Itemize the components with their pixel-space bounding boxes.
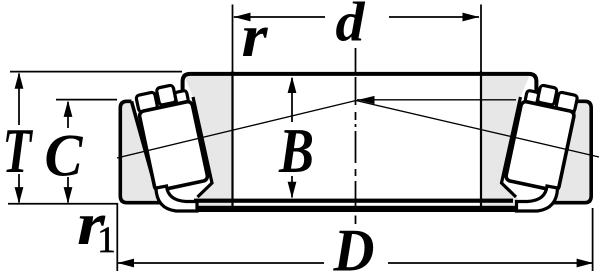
svg-text:C: C	[45, 123, 84, 189]
svg-text:d: d	[336, 0, 366, 54]
svg-text:T: T	[3, 115, 34, 186]
svg-text:B: B	[278, 115, 314, 186]
svg-text:D: D	[333, 218, 375, 275]
svg-text:r: r	[242, 3, 269, 69]
svg-text:1: 1	[97, 220, 116, 261]
